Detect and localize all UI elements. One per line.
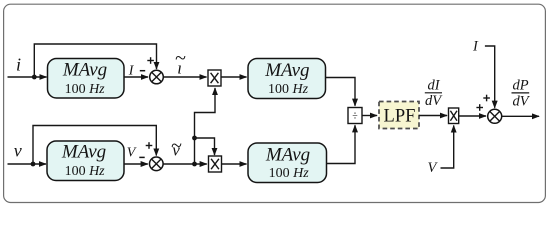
block U2 MAvg 100 Hz (248, 59, 326, 99)
summer S1 (150, 70, 164, 84)
plus sign S2 (146, 142, 153, 149)
multiplier M3 (449, 108, 459, 124)
svg-text:MAvg: MAvg (61, 141, 106, 162)
svg-text:100 Hz: 100 Hz (269, 166, 310, 181)
wire i feedforward to summer S1 (34, 44, 156, 77)
junction dot v-tilde (192, 162, 197, 167)
wire divider to LPF (362, 115, 377, 117)
svg-text:dV: dV (512, 94, 530, 110)
svg-text:dI: dI (427, 78, 440, 94)
svg-text:100 Hz: 100 Hz (65, 164, 106, 179)
wire M1 output (221, 76, 247, 78)
minus sign S1 (140, 70, 145, 72)
node V label (127, 145, 137, 160)
wire v feedforward to summer S2 (33, 126, 156, 165)
wire branch to M2 top (195, 138, 215, 155)
wire U3 output (124, 163, 148, 165)
wire U1 output (124, 76, 148, 78)
svg-text:V: V (127, 145, 137, 160)
wire M2 output (222, 163, 247, 165)
plus sign S3 left (476, 104, 483, 111)
node I label (128, 64, 135, 79)
block U1 MAvg 100 Hz (48, 59, 125, 99)
svg-text:100 Hz: 100 Hz (65, 82, 106, 97)
svg-text:dV: dV (425, 93, 443, 109)
node v label (14, 141, 22, 161)
block U4 MAvg 100 Hz (248, 143, 327, 183)
minus sign S2 (139, 156, 144, 158)
svg-text:LPF: LPF (384, 107, 416, 127)
svg-text:MAvg: MAvg (62, 59, 107, 80)
wire U2 output to divider (326, 78, 356, 106)
divider D1 (348, 108, 362, 124)
svg-text:dP: dP (512, 77, 528, 93)
wire S1 output (163, 76, 206, 78)
node I input label (472, 39, 479, 55)
wire M3 output (459, 115, 486, 117)
wire S2 output (163, 163, 207, 165)
svg-text:MAvg: MAvg (264, 60, 309, 81)
wire i input (8, 76, 47, 78)
wire v input (8, 163, 47, 165)
junction dot v (31, 162, 36, 167)
summer S2 (150, 157, 164, 171)
wire S3 output (502, 115, 539, 117)
svg-text:100 Hz: 100 Hz (268, 82, 309, 97)
node i-tilde label (175, 48, 186, 78)
node i label (16, 54, 21, 74)
node V input label (428, 160, 439, 176)
node dP/dV label (512, 77, 531, 109)
plus sign S1 (147, 57, 154, 64)
svg-text:v: v (14, 141, 22, 161)
node v-tilde label (171, 135, 182, 160)
svg-text:~: ~ (171, 135, 182, 157)
node dI/dV label (425, 78, 443, 110)
multiplier M1 (208, 70, 221, 86)
wire I input to S3 (485, 46, 495, 108)
plus sign S3 top (483, 95, 490, 102)
wire LPF output (419, 115, 447, 117)
block LPF (379, 102, 419, 129)
wire V input to M3 (441, 126, 454, 169)
wire U4 output to divider (326, 125, 355, 163)
junction dot branch (192, 136, 197, 141)
block U3 MAvg 100 Hz (47, 141, 124, 181)
wire v-tilde up to M1 (195, 88, 216, 164)
junction dot i (32, 75, 37, 80)
svg-text:MAvg: MAvg (265, 145, 310, 166)
svg-text:i: i (16, 54, 21, 74)
summer S3 (488, 109, 502, 123)
multiplier M2 (209, 156, 222, 172)
svg-text:~: ~ (175, 48, 186, 70)
